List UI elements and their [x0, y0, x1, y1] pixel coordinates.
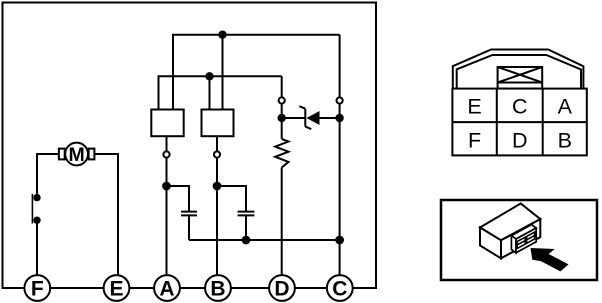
svg-text:D: D: [512, 128, 528, 152]
relay coil L1: [151, 110, 183, 137]
svg-text:A: A: [558, 95, 573, 119]
terminal point D branch: [279, 97, 285, 103]
wire capacitor C1 top lead: [167, 186, 190, 211]
wire C branch upper: [339, 35, 341, 98]
wire L1 output: [166, 136, 168, 151]
location arrow: [531, 248, 569, 271]
node rail C2 junction: [242, 236, 251, 245]
wire D branch upper: [281, 76, 283, 97]
terminal A: [154, 275, 180, 301]
connector housing roof outer: [453, 50, 584, 89]
motor M1: [59, 143, 95, 166]
wire capacitor C2 top lead: [217, 186, 246, 211]
svg-text:E: E: [109, 277, 123, 300]
wire second bus: [159, 76, 282, 109]
wire to terminal A: [166, 158, 168, 275]
svg-text:C: C: [332, 277, 347, 300]
switch S1 contact upper: [33, 194, 40, 201]
wire top bus drop to relay L2: [222, 35, 224, 110]
wire second bus drop to relay L2: [209, 76, 211, 109]
terminal C: [327, 275, 353, 301]
wire motor left lead: [37, 154, 59, 194]
svg-text:C: C: [512, 95, 528, 119]
wire top bus: [173, 35, 340, 110]
svg-text:B: B: [210, 277, 225, 300]
relay coil L2: [202, 110, 234, 137]
terminal point C branch: [337, 97, 343, 103]
wire D branch to resistor: [281, 104, 283, 139]
relay unit 3d left face: [480, 228, 501, 259]
location icon frame: [441, 200, 597, 280]
wire capacitor C1 bottom lead: [188, 216, 190, 240]
wire resistor to terminal D: [281, 168, 283, 276]
terminal point under L1: [163, 151, 169, 157]
wire to terminal B: [216, 158, 218, 275]
terminal B: [205, 275, 231, 301]
resistor R1: [275, 139, 288, 168]
switch S1 blade: [31, 194, 33, 224]
connector latch: [498, 67, 543, 89]
relay connector top face: [511, 225, 536, 239]
svg-text:E: E: [467, 95, 481, 119]
node zener cathode junction: [335, 114, 343, 122]
wire capacitor C2 bottom lead: [245, 216, 247, 240]
node zener anode junction: [278, 114, 286, 122]
wire zener left lead: [282, 117, 306, 119]
outer case box: [3, 3, 377, 289]
wire ground rail: [189, 239, 340, 241]
svg-text:F: F: [31, 277, 44, 300]
wire C branch lower: [339, 104, 341, 275]
connector housing roof inner: [457, 55, 581, 89]
wire switch to terminal F: [36, 220, 38, 274]
relay unit 3d top face: [480, 204, 540, 241]
svg-text:F: F: [468, 128, 481, 152]
relay unit 3d right face: [501, 219, 540, 258]
terminal F: [24, 275, 50, 301]
node capacitor C2 tap: [213, 182, 222, 191]
wire zener right lead: [320, 117, 340, 119]
terminal D: [269, 275, 295, 301]
node junction second bus: [205, 72, 213, 80]
node capacitor C1 tap: [162, 182, 171, 191]
relay connector pin grid: [517, 232, 534, 248]
switch S1 contact lower: [33, 217, 40, 224]
connector pin grid: [452, 89, 586, 156]
terminal point under L2: [214, 151, 220, 157]
capacitor C1: [181, 212, 197, 216]
terminal E: [104, 275, 130, 301]
svg-text:D: D: [274, 277, 289, 300]
relay connector left end cap: [511, 236, 516, 253]
wire motor right lead to E: [94, 154, 118, 274]
node junction top bus: [218, 31, 226, 39]
zener diode Z1: [299, 106, 319, 129]
svg-text:A: A: [159, 277, 174, 300]
relay connector pin face: [516, 228, 536, 253]
svg-text:M: M: [68, 144, 84, 166]
capacitor C2: [238, 212, 255, 216]
wire L2 output: [216, 136, 218, 151]
svg-text:B: B: [558, 128, 572, 152]
node rail to C line junction: [335, 236, 344, 245]
